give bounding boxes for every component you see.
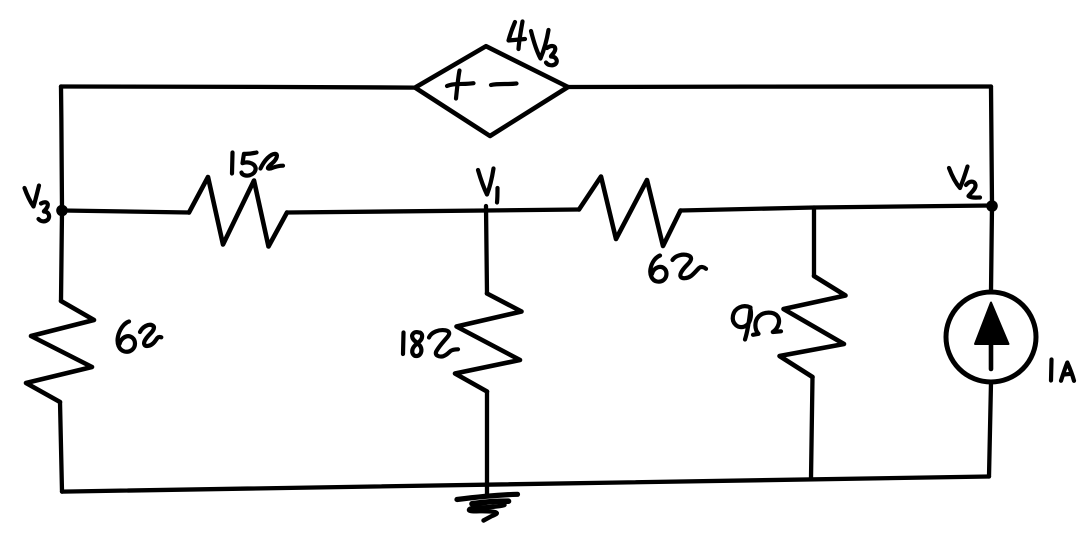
resistor R 9ohm zigzag bbox=[780, 276, 846, 377]
label V3 bbox=[25, 186, 50, 222]
ground symbol scribble bbox=[457, 494, 518, 520]
label V2 bbox=[949, 167, 980, 198]
label 9ohm bbox=[733, 306, 781, 339]
wire left vertical upper bbox=[61, 87, 62, 210]
resistor R 6ohm middle zigzag bbox=[579, 177, 681, 247]
wire bottom rail bbox=[62, 477, 989, 492]
label 4V3 bbox=[509, 22, 557, 66]
resistor 6ohm left zigzag bbox=[26, 301, 94, 402]
current source I1 circle bbox=[946, 292, 1036, 382]
resistor R 18ohm zigzag bbox=[455, 294, 522, 392]
wire middle rail 15ohm to V1 bbox=[287, 211, 486, 213]
current source arrow bbox=[975, 303, 1009, 370]
wire top rail left segment bbox=[61, 86, 415, 87]
label 15ohm bbox=[232, 153, 283, 176]
wire left vertical lower bbox=[60, 402, 62, 492]
wire right vertical upper bbox=[991, 87, 992, 205]
label 1A bbox=[1051, 360, 1074, 381]
wire 18ohm branch upper from node V1 bbox=[486, 206, 487, 294]
dependent voltage source U1 diamond 4V3 bbox=[415, 46, 568, 136]
node V3 junction dot bbox=[56, 205, 68, 217]
label 6ohm middle bbox=[650, 255, 706, 282]
wire top rail right segment bbox=[568, 84, 991, 89]
wire 9ohm branch lower bbox=[811, 377, 813, 479]
label 6ohm left bbox=[118, 322, 162, 352]
node V2 junction dot bbox=[986, 200, 998, 212]
wire middle rail V1 to 6ohm bbox=[486, 210, 579, 211]
wire left vertical middle bbox=[61, 211, 62, 301]
plus polarity mark inside diamond bbox=[447, 71, 474, 99]
resistor R 15ohm zigzag bbox=[189, 177, 287, 247]
label 18ohm bbox=[403, 330, 458, 356]
wire right vertical middle bbox=[991, 206, 992, 292]
wire 18ohm branch lower crossing bottom rail bbox=[485, 392, 489, 497]
wire 9ohm branch upper bbox=[812, 208, 816, 277]
wire middle rail 6ohm to V2 with 9ohm tap bbox=[681, 206, 993, 211]
label V1 bbox=[478, 169, 498, 203]
wire right vertical lower bbox=[989, 383, 991, 477]
wire middle rail V3 to 15ohm bbox=[63, 211, 189, 213]
minus polarity mark inside diamond bbox=[491, 84, 517, 86]
